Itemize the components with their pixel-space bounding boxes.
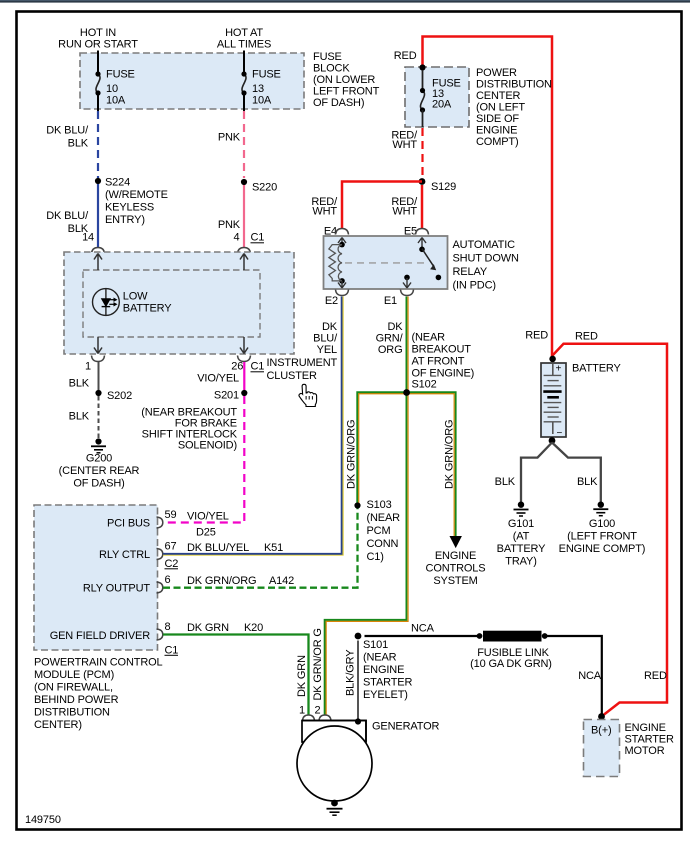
- splice S224: [95, 178, 101, 184]
- wire: DK GRN/ORG from S102 left branch down to S103: [359, 394, 407, 505]
- svg-text:C1: C1: [165, 645, 179, 657]
- ground G200: [95, 438, 101, 444]
- svg-text:SOLENOID): SOLENOID): [178, 440, 237, 452]
- generator circle: [297, 726, 372, 801]
- svg-text:STARTER: STARTER: [363, 677, 412, 689]
- svg-text:PNK: PNK: [218, 219, 241, 231]
- svg-text:BLK/GRY: BLK/GRY: [345, 649, 357, 696]
- wire: DK BLU/YEL K51 from RLY CTRL to relay E2: [163, 297, 343, 556]
- svg-text:VIO/YEL: VIO/YEL: [197, 373, 239, 385]
- svg-text:STARTER: STARTER: [625, 734, 674, 746]
- wire: RED/WHT dashed from PDC to S129: [421, 128, 423, 178]
- PCM box: [34, 505, 158, 650]
- svg-text:BREAKOUT: BREAKOUT: [412, 344, 472, 356]
- svg-text:MOTOR: MOTOR: [625, 745, 665, 757]
- PCM pin arc PCI BUS: [157, 517, 163, 528]
- svg-text:WHT: WHT: [392, 139, 417, 151]
- wire: DK GRN/ORG from S102 down to generator pin 2: [326, 392, 408, 715]
- svg-text:PNK: PNK: [218, 132, 241, 144]
- svg-text:DISTRIBUTION: DISTRIBUTION: [34, 707, 110, 719]
- exit connector arc pin 26: [238, 356, 251, 362]
- fuse 10 10A symbol: [96, 74, 100, 93]
- svg-text:BLK: BLK: [577, 476, 598, 488]
- relay switch: [419, 247, 425, 253]
- exit arrow pin 26: [240, 337, 248, 354]
- wire: DK GRN K20 from GEN FIELD DRIVER to generator pin 1: [163, 635, 309, 715]
- svg-text:AUTOMATIC: AUTOMATIC: [453, 239, 516, 251]
- svg-text:CONTROLS: CONTROLS: [426, 563, 486, 575]
- svg-text:14: 14: [82, 232, 94, 244]
- svg-text:D25: D25: [196, 527, 216, 539]
- svg-text:67: 67: [165, 541, 177, 553]
- svg-text:DK BLU/YEL: DK BLU/YEL: [187, 542, 249, 554]
- svg-text:LOW: LOW: [123, 291, 148, 303]
- splice S220: [241, 179, 247, 185]
- svg-text:POWER: POWER: [476, 67, 517, 79]
- wire: BLK battery negative to G101: [521, 443, 552, 503]
- relay coil: [339, 242, 345, 248]
- svg-text:ENGINE: ENGINE: [435, 550, 476, 562]
- svg-text:1: 1: [85, 361, 91, 373]
- svg-text:(ON LEFT: (ON LEFT: [476, 102, 525, 114]
- mouse cursor (hand pointer): [299, 384, 317, 406]
- svg-text:S129: S129: [431, 181, 456, 193]
- svg-text:S202: S202: [107, 390, 132, 402]
- svg-text:MODULE (PCM): MODULE (PCM): [34, 669, 114, 681]
- connector arc generator pin 1: [303, 715, 315, 721]
- svg-text:SIDE OF: SIDE OF: [476, 113, 519, 125]
- PCM pin arc GEN FIELD DRIVER: [157, 629, 163, 640]
- svg-text:S201: S201: [214, 390, 239, 402]
- svg-text:BLK: BLK: [69, 411, 90, 423]
- ground G101: [518, 502, 524, 508]
- node at PDC feed: [419, 64, 425, 70]
- svg-text:149750: 149750: [25, 814, 61, 826]
- svg-text:(AT: (AT: [513, 531, 530, 543]
- relay mechanical link (dashed): [345, 262, 428, 264]
- svg-text:E1: E1: [384, 295, 397, 307]
- svg-text:CONN: CONN: [367, 538, 399, 550]
- wire: DK BLU/BLK dashed from fuse block to S224: [97, 111, 99, 178]
- wire: feed into fuse 10: [97, 51, 99, 75]
- svg-text:RED: RED: [575, 331, 598, 343]
- svg-text:DK GRN/OR G: DK GRN/OR G: [312, 628, 324, 700]
- fuse block box: [80, 53, 304, 109]
- splice S101: [355, 633, 362, 640]
- wire: NCA from S101 to fusible link: [365, 635, 481, 637]
- fuse 13 10A symbol: [242, 74, 246, 93]
- svg-text:S224: S224: [105, 177, 130, 189]
- wire: RED/WHT solid from S129 over to relay E4: [342, 182, 422, 229]
- svg-text:4: 4: [234, 232, 240, 244]
- entry arrow pin 14: [94, 254, 102, 271]
- svg-text:13: 13: [252, 83, 264, 95]
- svg-text:ENGINE COMPT): ENGINE COMPT): [559, 543, 646, 555]
- wire: NCA from fusible link to starter B(+): [544, 636, 602, 715]
- exit connector arc pin 1: [92, 356, 105, 362]
- entry arrow pin 4: [240, 254, 248, 271]
- relay box: [324, 236, 448, 289]
- svg-text:POWERTRAIN CONTROL: POWERTRAIN CONTROL: [34, 657, 163, 669]
- svg-text:BLOCK: BLOCK: [313, 63, 350, 75]
- svg-text:BATTERY: BATTERY: [572, 363, 621, 375]
- wire: DK BLU/BLK solid from S224 to cluster pin 14: [97, 184, 99, 248]
- svg-text:EYELET): EYELET): [363, 689, 408, 701]
- node B(+): [598, 713, 605, 720]
- svg-text:C1): C1): [367, 551, 384, 563]
- svg-text:S101: S101: [363, 639, 388, 651]
- svg-text:C1: C1: [251, 232, 265, 244]
- svg-text:ORG: ORG: [378, 344, 403, 356]
- svg-text:6: 6: [165, 574, 171, 586]
- connector arc at pin 14: [92, 248, 105, 254]
- wire: VIO/YEL dashed from S201 down and to PCM PCI BUS: [163, 396, 245, 523]
- svg-text:(ON FIREWALL,: (ON FIREWALL,: [34, 682, 113, 694]
- ground G100: [598, 502, 604, 508]
- splice S102: [403, 389, 410, 396]
- svg-text:DK GRN: DK GRN: [296, 655, 308, 697]
- battery body: [541, 363, 566, 437]
- svg-text:DK BLU/: DK BLU/: [46, 210, 89, 222]
- svg-text:DK: DK: [388, 321, 404, 333]
- svg-text:RED: RED: [644, 670, 667, 682]
- svg-text:2: 2: [315, 705, 321, 717]
- exit arrow E2: [338, 281, 346, 288]
- svg-text:AT FRONT: AT FRONT: [412, 356, 465, 368]
- wire: RED from battery + to engine starter motor: [552, 344, 667, 717]
- svg-text:RUN OR START: RUN OR START: [58, 39, 138, 51]
- svg-text:G101: G101: [508, 518, 534, 530]
- PDC box: [405, 67, 469, 127]
- svg-text:ENGINE: ENGINE: [363, 664, 404, 676]
- wire: DK GRN/ORG from S102 right branch down to engine controls arrow: [407, 394, 455, 536]
- svg-text:VIO/YEL: VIO/YEL: [187, 511, 229, 523]
- svg-text:K20: K20: [244, 622, 263, 634]
- PCM pin arc RLY CTRL: [157, 549, 163, 560]
- svg-text:GEN FIELD DRIVER: GEN FIELD DRIVER: [50, 630, 150, 642]
- svg-text:CLUSTER: CLUSTER: [267, 370, 317, 382]
- svg-text:YEL: YEL: [317, 344, 337, 356]
- svg-text:C2: C2: [165, 558, 179, 570]
- svg-text:HOT AT: HOT AT: [225, 27, 263, 39]
- svg-text:10: 10: [106, 83, 118, 95]
- svg-text:BATTERY: BATTERY: [123, 303, 172, 315]
- svg-text:BLK: BLK: [68, 138, 89, 150]
- wire: DK GRN/ORG A142 dashed from RLY OUTPUT to S103 branch: [163, 509, 358, 588]
- svg-text:10A: 10A: [252, 95, 272, 107]
- wire: BLK solid to S202: [98, 362, 100, 390]
- wire: BLK/GRY from S101 to generator case: [357, 641, 359, 722]
- svg-text:ENGINE: ENGINE: [476, 125, 517, 137]
- connector arc at pin 4: [238, 248, 251, 254]
- svg-text:(NEAR: (NEAR: [412, 332, 446, 344]
- exit connector arc E2: [336, 290, 349, 296]
- svg-text:FUSE: FUSE: [106, 69, 135, 81]
- svg-text:RED: RED: [394, 50, 417, 62]
- svg-text:NCA: NCA: [411, 623, 435, 635]
- svg-text:ALL TIMES: ALL TIMES: [217, 39, 271, 51]
- svg-text:26: 26: [231, 361, 243, 373]
- battery node -: [549, 437, 556, 444]
- svg-text:G200: G200: [86, 453, 112, 465]
- battery node +: [549, 356, 556, 363]
- svg-text:BEHIND POWER: BEHIND POWER: [34, 694, 119, 706]
- connector arc at E4: [336, 229, 349, 235]
- svg-text:59: 59: [165, 509, 177, 521]
- wire: fuse 13 lower lead: [243, 93, 245, 111]
- svg-text:BLK: BLK: [69, 378, 90, 390]
- svg-text:DK GRN/ORG: DK GRN/ORG: [346, 420, 358, 489]
- exit connector arc E1: [401, 290, 414, 296]
- entry arrow E4: [338, 238, 346, 245]
- exit arrow E1: [403, 278, 411, 288]
- svg-text:E2: E2: [325, 295, 338, 307]
- svg-text:LEFT FRONT: LEFT FRONT: [313, 86, 380, 98]
- svg-text:20A: 20A: [432, 99, 452, 111]
- splice S202: [95, 390, 101, 396]
- wire: BLK dashed to G200: [98, 396, 100, 438]
- fuse 13 20A symbol: [422, 70, 424, 90]
- generator body: [302, 721, 366, 743]
- wire: feed into fuse 13 (10A): [243, 51, 245, 75]
- svg-text:INSTRUMENT: INSTRUMENT: [267, 357, 338, 369]
- svg-text:−: −: [557, 428, 563, 439]
- svg-text:S220: S220: [252, 182, 277, 194]
- svg-text:(LEFT FRONT: (LEFT FRONT: [567, 531, 637, 543]
- PCM pin arc RLY OUTPUT: [157, 582, 163, 593]
- svg-text:DK GRN/ORG: DK GRN/ORG: [444, 420, 456, 489]
- svg-text:DK GRN/ORG: DK GRN/ORG: [187, 575, 256, 587]
- connector arc at E5: [416, 229, 429, 235]
- svg-text:RELAY: RELAY: [453, 266, 488, 278]
- connector arc generator pin 2: [319, 715, 331, 721]
- svg-text:RED: RED: [525, 330, 548, 342]
- svg-text:B(+): B(+): [591, 725, 612, 737]
- svg-text:S103: S103: [367, 499, 392, 511]
- svg-text:1: 1: [299, 705, 305, 717]
- svg-text:K51: K51: [264, 542, 283, 554]
- splice S103: [354, 502, 360, 508]
- svg-text:WHT: WHT: [392, 206, 417, 218]
- svg-text:(IN PDC): (IN PDC): [453, 280, 496, 292]
- node generator case: [355, 718, 361, 724]
- svg-text:(NEAR: (NEAR: [363, 652, 397, 664]
- svg-text:BLK: BLK: [495, 476, 516, 488]
- entry arrow E5: [418, 238, 426, 249]
- svg-text:S102: S102: [412, 379, 437, 391]
- exit arrow pin 1: [94, 337, 102, 354]
- svg-text:(ON LOWER: (ON LOWER: [313, 74, 375, 86]
- svg-text:OF DASH): OF DASH): [313, 97, 364, 109]
- svg-text:NCA: NCA: [578, 670, 602, 682]
- svg-text:OF DASH): OF DASH): [73, 478, 124, 490]
- instrument cluster outer box: [64, 252, 294, 354]
- svg-text:8: 8: [165, 621, 171, 633]
- svg-text:KEYLESS: KEYLESS: [105, 202, 154, 214]
- svg-text:ENTRY): ENTRY): [105, 214, 145, 226]
- wire: BLK battery negative to G100: [552, 443, 601, 503]
- svg-text:C1: C1: [251, 361, 265, 373]
- svg-text:(NEAR: (NEAR: [367, 512, 401, 524]
- svg-text:CENTER): CENTER): [34, 719, 82, 731]
- svg-text:BATTERY: BATTERY: [497, 543, 546, 555]
- svg-text:GENERATOR: GENERATOR: [372, 721, 440, 733]
- svg-text:10A: 10A: [106, 95, 126, 107]
- svg-text:A142: A142: [269, 575, 294, 587]
- engine controls system arrow: [450, 537, 461, 548]
- svg-text:RLY OUTPUT: RLY OUTPUT: [83, 583, 151, 595]
- svg-text:BLU/: BLU/: [313, 333, 338, 345]
- svg-text:COMPT): COMPT): [476, 136, 518, 148]
- svg-text:RLY CTRL: RLY CTRL: [99, 549, 150, 561]
- svg-text:G100: G100: [589, 518, 615, 530]
- wire: PNK solid from S220 to cluster pin 4: [243, 185, 245, 248]
- svg-text:DK GRN: DK GRN: [187, 622, 229, 634]
- svg-text:HOT IN: HOT IN: [80, 27, 116, 39]
- wire: RED from PDC feed up and over to battery: [423, 37, 553, 358]
- splice S201: [241, 390, 247, 396]
- top window bar: [0, 0, 690, 3]
- svg-text:DK: DK: [322, 321, 338, 333]
- svg-text:WHT: WHT: [312, 206, 337, 218]
- svg-text:FUSE: FUSE: [313, 51, 342, 63]
- svg-text:ENGINE: ENGINE: [625, 722, 666, 734]
- fusible link (10 GA DK GRN): [477, 633, 483, 639]
- svg-text:PCM: PCM: [367, 525, 391, 537]
- svg-text:SHUT DOWN: SHUT DOWN: [453, 253, 519, 265]
- engine starter motor box: [584, 720, 620, 777]
- wire: DK GRN/ORG from relay E1 down to S102: [407, 297, 409, 393]
- svg-text:(10 GA DK GRN): (10 GA DK GRN): [470, 658, 552, 670]
- svg-text:CENTER: CENTER: [476, 90, 521, 102]
- splice S129: [419, 178, 426, 185]
- svg-text:GRN/: GRN/: [376, 333, 404, 345]
- svg-text:SYSTEM: SYSTEM: [433, 575, 477, 587]
- svg-text:(W/REMOTE: (W/REMOTE: [105, 189, 168, 201]
- wire: VIO/YEL solid from pin 26 to S201: [243, 362, 245, 390]
- svg-text:DK BLU/: DK BLU/: [46, 125, 89, 137]
- svg-text:(CENTER REAR: (CENTER REAR: [59, 465, 140, 477]
- wire: fuse 10 lower lead: [97, 93, 99, 111]
- battery cells: [552, 364, 554, 375]
- generator ground: [331, 800, 338, 807]
- svg-text:TRAY): TRAY): [505, 556, 536, 568]
- inner dashed box: [83, 270, 260, 337]
- wire: RED/WHT solid from S129 to relay E5: [421, 185, 424, 229]
- svg-text:+: +: [556, 364, 562, 375]
- wire: PNK dashed from fuse block to S220: [243, 111, 245, 178]
- svg-text:PCI BUS: PCI BUS: [107, 518, 150, 530]
- svg-text:DISTRIBUTION: DISTRIBUTION: [476, 79, 552, 91]
- LOW BATTERY indicator symbol: [93, 289, 120, 316]
- svg-text:FUSE: FUSE: [252, 69, 281, 81]
